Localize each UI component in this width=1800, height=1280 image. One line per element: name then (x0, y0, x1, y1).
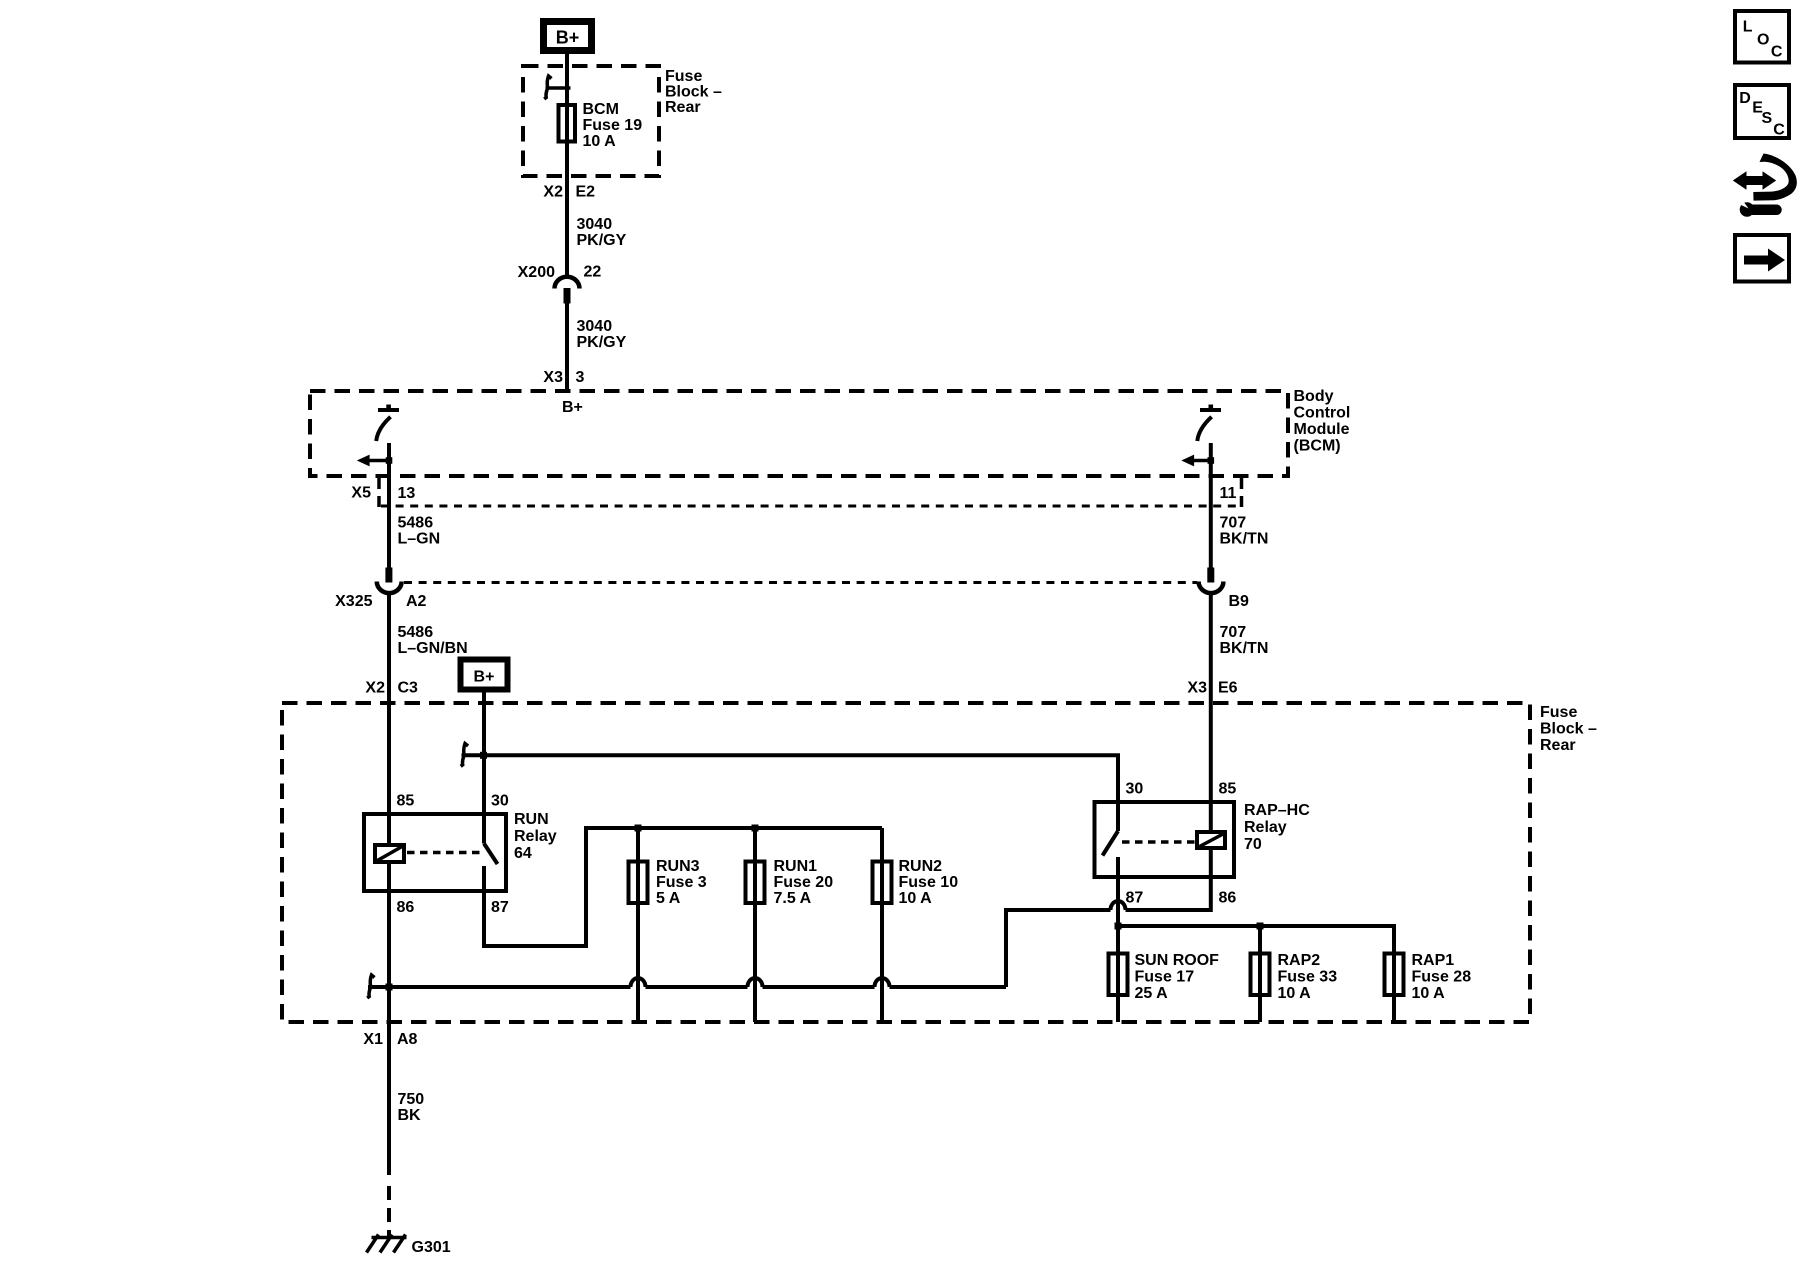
junction B+ branch (480, 752, 487, 759)
fuse block rear dashed box (top) (523, 66, 659, 176)
hop RUN3 over ground bus (631, 978, 646, 987)
svg-text:5 A: 5 A (656, 890, 681, 907)
svg-text:87: 87 (1126, 890, 1144, 907)
svg-text:A2: A2 (406, 593, 427, 610)
power symbol B+ (top) (544, 22, 592, 51)
svg-text:E6: E6 (1218, 680, 1238, 697)
svg-text:3040: 3040 (577, 318, 613, 335)
wire branch B+ to RAP-HC relay 30 (462, 755, 1119, 831)
wire label 750 BK (398, 1091, 425, 1124)
svg-text:85: 85 (397, 793, 415, 810)
wire label 707 BK/TN (upper) (1220, 515, 1269, 548)
junction RUN3 tap (635, 825, 642, 832)
svg-text:PK/GY: PK/GY (577, 334, 627, 351)
svg-text:10 A: 10 A (899, 890, 933, 907)
svg-text:BK: BK (398, 1107, 422, 1124)
power symbol B+ (fuse block feed) (461, 660, 508, 690)
svg-text:30: 30 (1126, 781, 1144, 798)
icon box DESC (1735, 85, 1789, 139)
wire label 707 BK/TN (lower) (1220, 624, 1269, 657)
svg-text:64: 64 (514, 845, 532, 862)
fuse RUN2 Fuse 10 10 A (873, 858, 959, 907)
fuse RAP1 Fuse 28 10 A (1385, 952, 1472, 1002)
svg-text:3: 3 (576, 369, 585, 386)
svg-text:Fuse 17: Fuse 17 (1135, 969, 1195, 986)
svg-text:RUN1: RUN1 (774, 858, 818, 875)
svg-text:A8: A8 (397, 1031, 418, 1048)
svg-text:X1: X1 (363, 1031, 383, 1048)
svg-text:85: 85 (1219, 781, 1237, 798)
svg-text:5486: 5486 (398, 624, 434, 641)
svg-text:Relay: Relay (1244, 819, 1287, 836)
connector X200 pin 22 (518, 264, 602, 304)
wire B+ feed down to RUN relay 30 (482, 692, 486, 844)
wire RAP-HC 86 return (1126, 850, 1211, 910)
hop 87 over 86 return (1111, 901, 1126, 910)
svg-text:X2: X2 (543, 184, 563, 201)
BCM driver switch (right) (1197, 405, 1221, 442)
svg-text:C: C (1773, 122, 1785, 139)
svg-text:Module: Module (1294, 421, 1350, 438)
label RUN Relay 64 (514, 811, 557, 862)
svg-text:707: 707 (1220, 515, 1247, 532)
svg-text:11: 11 (1220, 485, 1237, 502)
bus tap hook (top fuse feed) (544, 76, 570, 99)
icon swap/tools (1733, 154, 1797, 217)
svg-text:X200: X200 (518, 264, 555, 281)
label Body Control Module (BCM) (1294, 388, 1351, 455)
relay RUN coil (375, 845, 404, 862)
BCM driver switch (left) (376, 405, 399, 442)
svg-text:X325: X325 (335, 593, 372, 610)
hop RUN2 over ground bus (875, 978, 890, 987)
BCM-SECTION (310, 388, 1350, 568)
svg-text:Relay: Relay (514, 828, 557, 845)
wire RUN2 drop (880, 828, 884, 1022)
svg-text:X2: X2 (365, 680, 385, 697)
svg-text:Fuse 20: Fuse 20 (774, 874, 834, 891)
svg-text:RUN: RUN (514, 811, 549, 828)
pin labels X2 | C3 (365, 680, 418, 697)
bus tap hook (ground bus end) (367, 975, 374, 998)
label Fuse Block - Rear (main) (1540, 704, 1597, 754)
junction RAP2 tap (1257, 923, 1264, 930)
svg-text:BK/TN: BK/TN (1220, 640, 1269, 657)
wire dashed continuation to ground (387, 1186, 391, 1237)
svg-text:B9: B9 (1229, 593, 1250, 610)
svg-text:C: C (1771, 44, 1783, 61)
svg-text:O: O (1757, 32, 1769, 49)
svg-text:3040: 3040 (577, 216, 613, 233)
svg-text:Fuse 3: Fuse 3 (656, 874, 707, 891)
svg-text:X5: X5 (351, 485, 371, 502)
svg-text:Fuse: Fuse (1540, 704, 1577, 721)
wire RUN1 drop (753, 828, 757, 1022)
MID-SECTION (335, 568, 1268, 988)
svg-text:RAP–HC: RAP–HC (1244, 802, 1310, 819)
svg-text:D: D (1739, 90, 1751, 107)
bus tap hook (B+ branch) (461, 744, 484, 767)
hop RUN1 over ground bus (748, 978, 763, 987)
svg-text:(BCM): (BCM) (1294, 438, 1341, 455)
wire X325-B9 down to fuse block (1209, 593, 1213, 831)
ICONS (1733, 11, 1797, 282)
svg-text:7.5 A: 7.5 A (774, 890, 812, 907)
svg-text:L–GN: L–GN (398, 531, 441, 548)
svg-text:87: 87 (491, 899, 509, 916)
pin labels X2 | E2 (543, 184, 595, 201)
svg-text:5486: 5486 (398, 515, 434, 532)
svg-text:SUN ROOF: SUN ROOF (1135, 952, 1220, 969)
svg-text:10 A: 10 A (1412, 985, 1446, 1002)
connector X325 pin B9 (right half) (1199, 568, 1249, 611)
GROUND-SECTION (363, 987, 450, 1256)
svg-text:10 A: 10 A (583, 133, 617, 150)
connector boundary pin 11 (1220, 478, 1242, 508)
relay RAP-HC pin labels 30 85 87 86 (1126, 781, 1237, 907)
svg-text:RUN2: RUN2 (899, 858, 943, 875)
relay RAP-HC switch blade (1103, 831, 1119, 856)
svg-text:Body: Body (1294, 388, 1334, 405)
svg-text:Control: Control (1294, 405, 1351, 422)
pin labels X3 | E6 (1187, 680, 1237, 697)
svg-text:86: 86 (1219, 890, 1237, 907)
svg-text:750: 750 (398, 1091, 425, 1108)
relay RUN switch blade (484, 844, 498, 865)
FUSEBLOCK-SECTION (282, 692, 1597, 1022)
svg-text:Block –: Block – (1540, 721, 1597, 738)
wire BCM right output (1209, 443, 1213, 568)
wire BCM left output (387, 443, 391, 568)
relay RUN Relay 64 box (364, 814, 506, 891)
wire label 5486 L-GN/BN (398, 624, 468, 657)
fuse SUN ROOF Fuse 17 25 A (1109, 952, 1220, 1002)
icon box LOC (1735, 11, 1789, 63)
wire RUN3 drop (636, 828, 640, 1022)
fuse bus RAP (1118, 926, 1394, 1022)
wire X200 to BCM (565, 303, 569, 391)
connector boundary X5 pin 13 (351, 478, 415, 508)
relay RUN coil-switch dashed link (407, 851, 480, 855)
svg-text:Fuse 28: Fuse 28 (1412, 969, 1472, 986)
MAIN-TOP (518, 22, 722, 392)
dotted connector line X5 (381, 505, 1240, 508)
svg-text:Fuse 33: Fuse 33 (1278, 969, 1338, 986)
ground G301 (367, 1235, 451, 1257)
dotted connector line X325 (404, 581, 1197, 584)
svg-text:Fuse 19: Fuse 19 (583, 117, 643, 134)
svg-text:L: L (1743, 19, 1753, 36)
wire A8 down (387, 987, 391, 1175)
junction RUN1 tap (752, 825, 759, 832)
svg-text:Fuse 10: Fuse 10 (899, 874, 959, 891)
svg-text:B+: B+ (556, 28, 580, 48)
svg-text:S: S (1762, 110, 1773, 127)
wire RUN 87 to fuse bus (484, 828, 882, 946)
wire label 5486 L-GN (398, 515, 441, 548)
svg-text:25 A: 25 A (1135, 985, 1169, 1002)
relay RAP-HC coil (1197, 832, 1225, 848)
svg-text:X3: X3 (1187, 680, 1207, 697)
svg-text:Rear: Rear (665, 99, 701, 116)
svg-text:RAP2: RAP2 (1278, 952, 1321, 969)
svg-text:BK/TN: BK/TN (1220, 531, 1269, 548)
wire RAP2 drop (1258, 926, 1262, 1022)
output arrow (left driver) (357, 455, 393, 467)
svg-text:B+: B+ (562, 399, 583, 416)
svg-text:BCM: BCM (583, 101, 619, 118)
fuse BCM Fuse 19 10 A (559, 101, 643, 150)
svg-text:RUN3: RUN3 (656, 858, 700, 875)
svg-text:B+: B+ (474, 669, 495, 686)
connector X325 pin A2 (left half) (335, 568, 426, 611)
fuse RAP2 Fuse 33 10 A (1251, 952, 1338, 1002)
svg-text:L–GN/BN: L–GN/BN (398, 640, 468, 657)
wire B+ to X200 connector (565, 54, 569, 277)
svg-text:C3: C3 (398, 680, 419, 697)
output arrow (right driver) (1181, 455, 1214, 467)
fuse block rear dashed box (main) (282, 703, 1530, 1022)
svg-text:10 A: 10 A (1278, 985, 1312, 1002)
junction 87 fuse bus (1115, 923, 1122, 930)
wire label 3040 PK/GY (upper) (577, 216, 627, 249)
svg-text:Rear: Rear (1540, 737, 1576, 754)
svg-text:70: 70 (1244, 836, 1262, 853)
svg-text:707: 707 (1220, 624, 1247, 641)
relay RAP-HC coil-switch dashed link (1122, 840, 1195, 844)
label RAP-HC Relay 70 (1244, 802, 1310, 853)
svg-text:PK/GY: PK/GY (577, 232, 627, 249)
wire X325-A2 down to fuse block (387, 593, 391, 988)
icon box forward arrow (1735, 235, 1789, 282)
svg-text:E2: E2 (576, 184, 596, 201)
fuse RUN1 Fuse 20 7.5 A (746, 858, 834, 907)
wire RAP-HC 87 drop with hop (1116, 857, 1120, 1022)
svg-text:30: 30 (491, 793, 509, 810)
ground bus with hops (368, 985, 1006, 989)
wire label 3040 PK/GY (lower) (577, 318, 627, 351)
svg-text:86: 86 (397, 899, 415, 916)
svg-text:13: 13 (398, 485, 416, 502)
svg-text:X3: X3 (543, 369, 563, 386)
body control module dashed box (310, 391, 1288, 476)
junction ground bus / A8 wire (386, 984, 393, 991)
relay RUN pin labels 85 30 86 87 (397, 793, 509, 917)
fuse RUN3 Fuse 3 5 A (629, 858, 707, 907)
svg-text:Block –: Block – (665, 84, 722, 101)
svg-text:22: 22 (584, 264, 602, 281)
pin labels X3 | 3 (543, 369, 584, 386)
relay RAP-HC Relay 70 box (1095, 802, 1235, 877)
pin labels X1 | A8 (363, 1031, 417, 1048)
svg-text:RAP1: RAP1 (1412, 952, 1455, 969)
svg-text:G301: G301 (412, 1239, 451, 1256)
svg-text:Fuse: Fuse (665, 68, 702, 85)
